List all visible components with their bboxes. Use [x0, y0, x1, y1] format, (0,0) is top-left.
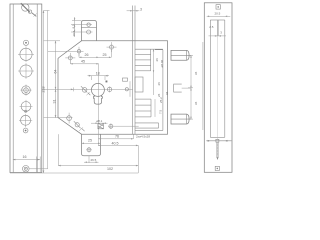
svg-text:ø8.06: ø8.06 — [160, 59, 164, 67]
bolt guide open rect — [174, 84, 191, 92]
internal bolt stack lower — [135, 97, 163, 131]
bottom mounting tab — [82, 134, 101, 156]
upper screw post with leader — [48, 47, 84, 56]
side view top screw square — [216, 5, 220, 9]
svg-text:26: 26 — [157, 93, 161, 97]
large hole circle A — [18, 47, 34, 63]
side view sensor rod — [209, 20, 227, 37]
bottom tab dimension 25 — [82, 139, 101, 144]
svg-text:9.5: 9.5 — [72, 24, 76, 29]
top-right screw post — [107, 42, 117, 52]
top tab screw hole 2 — [71, 30, 93, 34]
slotted screw symbol diagonal — [74, 121, 85, 131]
svg-text:76: 76 — [115, 135, 119, 139]
slotted screw left of cylinder — [81, 86, 90, 95]
cylinder horizontal centerline — [44, 87, 133, 91]
svg-text:40.5: 40.5 — [112, 141, 119, 145]
dimension 102 long — [58, 134, 138, 171]
large hole circle B — [18, 63, 34, 79]
side view case rectangle — [210, 20, 225, 137]
bullseye hole lower — [23, 128, 28, 133]
rotated dim texts right interior — [153, 49, 169, 117]
top tab screw hole 1 — [71, 23, 92, 26]
extension line left of side view — [202, 42, 204, 130]
vertical chain dimension 64 / 31 — [44, 41, 73, 118]
dimension 18 above cylinder — [88, 71, 110, 80]
dimension 26.5 below tab — [84, 156, 99, 163]
bottom dimension 76 — [99, 134, 151, 139]
svg-text:31: 31 — [53, 100, 57, 104]
dimension 218 vertical line — [42, 11, 46, 174]
svg-text:18: 18 — [96, 71, 100, 75]
internal mechanism box — [135, 77, 143, 92]
svg-text:26.5: 26.5 — [91, 158, 97, 162]
cylinder stop pin — [106, 81, 108, 83]
svg-text:10.5: 10.5 — [72, 30, 76, 36]
top mounting tab — [81, 21, 96, 41]
svg-text:25: 25 — [88, 139, 92, 143]
svg-text:36: 36 — [194, 71, 198, 75]
internal bolt stack upper — [135, 49, 163, 71]
hole circle E — [19, 114, 32, 127]
svg-text:7.5: 7.5 — [159, 109, 163, 114]
marker circle right of cylinder — [107, 86, 111, 92]
internal mechanism small rect and post — [123, 78, 131, 97]
marker circle at follower with leader — [108, 123, 139, 129]
stem tick and label 3 — [127, 8, 142, 12]
top countersunk screw with slot — [21, 3, 37, 16]
side view fixing screw shank — [217, 142, 219, 160]
svg-text:25.2: 25.2 — [159, 97, 163, 103]
double circle C (cylinder hole) — [21, 85, 32, 96]
svg-text:25: 25 — [103, 53, 107, 57]
svg-text:2.5: 2.5 — [209, 25, 214, 29]
svg-text:94: 94 — [165, 91, 169, 95]
bottom tab screw hole — [86, 147, 91, 152]
deadbolt pin 1 — [171, 50, 191, 60]
faceplate outer rectangle — [10, 4, 42, 173]
side view outer plate — [204, 3, 232, 173]
bottom bullseye hole with leader — [23, 166, 48, 173]
bottom reference line — [10, 145, 138, 173]
svg-text:2xø4.5x28: 2xø4.5x28 — [136, 135, 150, 139]
second vertical extension line — [44, 11, 50, 169]
svg-text:26: 26 — [155, 58, 159, 62]
svg-text:3: 3 — [140, 8, 142, 12]
hole circle D — [20, 100, 33, 113]
side view centerline — [217, 20, 219, 140]
tiny hole — [25, 110, 27, 112]
lower-left screw post — [65, 53, 75, 63]
svg-text:20.5: 20.5 — [215, 12, 221, 16]
screw post lower-left of body — [67, 113, 72, 124]
svg-text:ø8.1: ø8.1 — [96, 119, 102, 123]
svg-text:26: 26 — [85, 53, 89, 57]
deadbolt pin 3 — [171, 114, 191, 124]
dimension 16 on plate — [13, 155, 40, 173]
dimension chain 36 / 36 between pins — [188, 55, 198, 119]
svg-text:36: 36 — [194, 101, 198, 105]
euro cylinder profile — [91, 83, 104, 104]
faceplate inner fold lines — [13, 4, 37, 173]
side view bottom screw square — [215, 166, 219, 170]
svg-text:16: 16 — [23, 155, 27, 159]
svg-text:45: 45 — [81, 60, 85, 64]
svg-text:102: 102 — [107, 167, 113, 171]
svg-text:26: 26 — [157, 82, 161, 86]
dimension 45 — [70, 60, 99, 65]
svg-text:64: 64 — [54, 70, 58, 74]
dimension 26 / 25 chain — [79, 49, 111, 58]
bullseye hole top — [23, 40, 28, 45]
side view dimension 20.5 — [207, 12, 231, 17]
bottom dimension 40.5 — [99, 141, 139, 146]
square follower with hatch — [91, 119, 108, 129]
lock body outline with chamfered left corners — [58, 41, 168, 134]
cylinder vertical centerline — [97, 64, 99, 146]
sensor pin stem through body — [133, 6, 135, 135]
body inner right wall line — [155, 50, 163, 131]
tab dimension chain 9.5 / 10.5 — [72, 17, 82, 37]
side view bottom flange bar — [206, 139, 231, 142]
